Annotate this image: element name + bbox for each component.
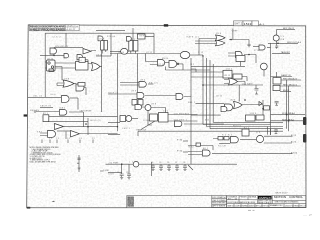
wire cap drop x256 (255, 85, 257, 88)
wire top bus horizontal (45, 32, 154, 34)
capacitor C5 (175, 164, 179, 170)
svg-text:MATERIAL: MATERIAL (249, 196, 257, 199)
svg-text:C9: C9 (126, 172, 128, 174)
svg-text:REC EN: REC EN (30, 110, 40, 112)
svg-text:MOT ON (2): MOT ON (2) (283, 28, 294, 30)
svg-text:SANTA CLARA CA: SANTA CLARA CA (258, 201, 272, 204)
border frame (27, 25, 306, 208)
wire y145.5 (188, 146, 213, 151)
wire to G20 (253, 46, 259, 48)
box pair U26 (132, 100, 137, 106)
wire G19 output (244, 55, 256, 64)
transistor Q2 (260, 63, 267, 70)
wire y115.1 into G30b (191, 114, 221, 116)
svg-text:PB (2): PB (2) (149, 83, 158, 85)
transistor Q3 (256, 135, 263, 142)
nand U19 (236, 52, 243, 58)
wire y122.6 left (108, 122, 120, 124)
svg-text:C8: C8 (183, 162, 185, 164)
svg-text:U4 6: U4 6 (51, 94, 57, 96)
capacitor row (77, 158, 187, 180)
wire G45 vert feed (191, 69, 196, 72)
nand U14 (61, 96, 69, 103)
wire vert above G18 out (232, 29, 234, 40)
wire G16 drops (131, 51, 136, 54)
wire U49 to U50 (165, 62, 169, 64)
wire box G38 drop (276, 72, 278, 78)
wire G17 in (110, 50, 121, 52)
svg-text:B 24: B 24 (291, 142, 297, 144)
wire G35 inputs (40, 133, 48, 136)
wire y85 center right (203, 85, 239, 102)
wire G11 inputs (57, 83, 64, 86)
bottom-center ref text block (127, 195, 212, 207)
svg-text:TACH OUT: TACH OUT (281, 51, 291, 54)
resistor R3 (196, 143, 201, 146)
svg-text:U7 12: U7 12 (146, 52, 153, 54)
wire center long horizontal (110, 53, 180, 55)
gate U5 (77, 55, 83, 60)
svg-text:U9 4: U9 4 (216, 33, 222, 35)
wire G24 to G25 (145, 95, 176, 97)
wire left entry y111.5 (36, 111, 59, 113)
flipflop pair U16 (129, 41, 133, 52)
svg-text:A 4B127 PROD RELEASED: A 4B127 PROD RELEASED (30, 27, 65, 31)
buffer U36 (71, 131, 80, 137)
svg-text:22: 22 (92, 138, 95, 140)
box pair U38 (273, 78, 281, 85)
svg-text:BUS 02: BUS 02 (233, 125, 242, 127)
svg-text:U4 8: U4 8 (64, 78, 70, 80)
wire G41 inputs (219, 141, 230, 144)
wire G32 out (184, 123, 224, 125)
svg-text:E4 2: E4 2 (244, 127, 250, 129)
wire tick extra (41, 140, 43, 144)
box U8 (79, 57, 85, 62)
svg-text:R 22: R 22 (189, 147, 195, 149)
svg-text:C4: C4 (151, 162, 153, 164)
svg-text:P 30: P 30 (177, 140, 183, 142)
wire right y114.6 (271, 114, 306, 116)
transistor Q1 (273, 35, 279, 41)
or-gate U45b (229, 78, 238, 85)
svg-text:TACH IN: TACH IN (40, 105, 52, 108)
svg-text:REF 1: REF 1 (140, 36, 148, 38)
wire stub y141 right (183, 140, 188, 142)
wire G45 inputs (191, 72, 223, 77)
svg-text:U7 11: U7 11 (158, 64, 165, 66)
flipflop U33 (43, 115, 49, 122)
wire y133.5 G36 out (80, 133, 118, 135)
svg-text:10 U9: 10 U9 (143, 120, 150, 122)
wire right y53.7 (272, 53, 290, 55)
svg-text:R 14: R 14 (254, 50, 260, 52)
wire G17 out (128, 50, 129, 52)
wire G7 G8 link (85, 60, 91, 64)
gate U4 (64, 54, 69, 58)
nand U12 (76, 84, 84, 91)
svg-text:E2 1: E2 1 (43, 113, 49, 115)
wire cap Q1 col (275, 46, 278, 49)
capacitor C8 (77, 158, 81, 163)
wire +5 rail col (78, 155, 80, 172)
svg-text:REV A: REV A (263, 204, 270, 207)
wire Q3 outs (264, 136, 293, 143)
svg-text:SIZE D: SIZE D (228, 205, 235, 207)
wire cap C9 x249 (248, 45, 251, 48)
svg-text:U8 5: U8 5 (140, 79, 146, 81)
wire diag 1 (141, 120, 158, 130)
wire into G30 (196, 103, 225, 105)
svg-text:DWG NO: DWG NO (242, 205, 249, 207)
svg-text:SCHEMATIC 2 OF 2: SCHEMATIC 2 OF 2 (270, 204, 283, 207)
nand U35 (48, 131, 56, 138)
wire y154 long (212, 153, 293, 155)
svg-text:2 GND: 2 GND (103, 170, 110, 172)
svg-text:GND: GND (108, 173, 115, 175)
svg-text:4-12-77: 4-12-77 (66, 29, 76, 31)
svg-text:DO NOT SCALE DRAWING SCALE NO: DO NOT SCALE DRAWING SCALE NONE (227, 201, 256, 204)
wire G20 out to right vertical (267, 47, 271, 49)
svg-text:V REF: V REF (232, 31, 239, 33)
wire left vertical from bus (44, 33, 46, 97)
svg-text:U9 8: U9 8 (151, 103, 157, 105)
wire label run to G18 (199, 39, 216, 56)
buffer U2 (83, 49, 91, 54)
wire Q1 collector down (276, 41, 278, 46)
nand U37 (59, 108, 61, 110)
wire transistor Q1 emitter up (276, 29, 278, 35)
wire vbus 2 (207, 58, 284, 127)
svg-text:C5: C5 (159, 162, 161, 164)
svg-text:REV A: REV A (294, 204, 300, 207)
capacitor C6 (120, 174, 124, 180)
wire cap drop x249 (248, 40, 250, 45)
buffer U34 (55, 124, 64, 130)
box U16b (138, 34, 146, 39)
node dots (244, 99, 246, 101)
svg-text:1402571: 1402571 (249, 205, 255, 207)
wire drop x133 (132, 28, 134, 40)
wire G25 out (184, 58, 191, 164)
svg-text:CAP SENSE: CAP SENSE (80, 109, 93, 112)
wire x111 lower (110, 48, 112, 56)
gate U30c (221, 107, 227, 112)
nand U41 (231, 137, 239, 143)
svg-text:8. ALL DIODES ARE TYPE 1N914: 8. ALL DIODES ARE TYPE 1N914 (30, 160, 56, 163)
svg-text:DIR REV 1: DIR REV 1 (174, 119, 188, 121)
wire right y120.8 (271, 120, 306, 122)
wire G13 drop (81, 56, 84, 88)
wire G27 out (139, 107, 166, 114)
box U48 (236, 56, 245, 62)
wire OUT right (268, 42, 298, 44)
capacitor C10 right (275, 102, 279, 106)
nand U24 (137, 93, 144, 99)
svg-text:U8 9: U8 9 (131, 91, 137, 93)
wire G1 area (40, 47, 70, 55)
svg-text:12: 12 (49, 138, 52, 140)
svg-text:C8: C8 (117, 172, 119, 174)
svg-text:U5 2: U5 2 (99, 38, 105, 40)
or-gate U18b (216, 40, 226, 46)
wire bottom pin ticks (50, 140, 93, 144)
wire x138 drop (137, 131, 139, 136)
or-gate U30b (234, 102, 243, 109)
flipflop U45 (223, 70, 232, 78)
or-gate U22 (180, 51, 190, 58)
wire center horizontal right part (190, 54, 203, 56)
svg-text:SH 22: SH 22 (300, 205, 306, 207)
svg-text:SET: SET (37, 132, 43, 134)
wire G35 to G36 (57, 130, 70, 132)
box U7 (76, 62, 89, 71)
svg-text:14: 14 (56, 138, 59, 140)
svg-text:EN: EN (185, 114, 190, 116)
left edge tick (24, 114, 28, 116)
wire G9 out (100, 66, 102, 68)
wire G2 out (70, 47, 96, 50)
svg-text:MOT 1517: MOT 1517 (276, 192, 289, 194)
wire G18 output (229, 39, 249, 41)
svg-text:RUN CMD A-1: RUN CMD A-1 (282, 118, 295, 121)
svg-text:CK 12: CK 12 (216, 96, 223, 98)
svg-text:U6 14: U6 14 (118, 52, 125, 54)
wire diag 2 (188, 165, 193, 170)
nand U25 (176, 94, 183, 100)
title text (212, 196, 305, 208)
flipflop U6 (47, 60, 56, 71)
small dash mark mid-bottom (100, 170, 104, 172)
svg-text:S 12: S 12 (198, 52, 204, 54)
nand U50 (169, 61, 177, 68)
svg-text:R1 2.2K: R1 2.2K (218, 145, 227, 147)
svg-text:Q1 A: Q1 A (279, 38, 285, 41)
pin numbers bottom ticks (49, 138, 95, 140)
wire x151.7 drop (151, 162, 153, 176)
circle gate U27b (145, 105, 151, 111)
wire x165.5 drop (165, 67, 167, 71)
wire G41 out to Q3 (240, 139, 256, 141)
and U27 (135, 104, 142, 109)
wire y62 link (55, 67, 76, 69)
svg-text:18: 18 (79, 138, 82, 140)
svg-text:CLK GATE: CLK GATE (242, 82, 254, 85)
wire bus stubs to Q3 (268, 127, 271, 135)
svg-text:STATUS A: STATUS A (66, 26, 78, 29)
wire y121.7 (48, 121, 88, 123)
capacitor C4 (167, 164, 171, 170)
gate U1 nand (50, 48, 57, 54)
top border tick (164, 24, 168, 26)
wire y56 short (96, 55, 111, 57)
flipflop U28 (150, 114, 158, 121)
svg-text:U3 4: U3 4 (77, 60, 83, 62)
box U10 (49, 69, 54, 72)
svg-text:CMP 1: CMP 1 (122, 128, 131, 130)
svg-text:1 D 2: 1 D 2 (163, 110, 169, 112)
svg-text:B 104: B 104 (291, 152, 298, 154)
top edge reference boxes (234, 21, 259, 26)
wire G12 out (78, 88, 86, 110)
wire G19 inputs (228, 53, 236, 56)
wire G23 inputs (120, 83, 139, 86)
svg-text:EN 2 B: EN 2 B (283, 90, 290, 92)
wire y70.8 center (166, 69, 211, 71)
wire y94 left (108, 93, 137, 95)
bottom-left corner mark (27, 207, 31, 209)
svg-text:CLK 2: CLK 2 (53, 37, 62, 39)
wire G18 inputs (195, 41, 216, 44)
svg-text:C6: C6 (167, 162, 169, 164)
capacitor C3 (159, 164, 163, 170)
title sub-table (212, 196, 227, 208)
svg-text:STB 04: STB 04 (107, 36, 116, 38)
svg-text:STOP CMD A-1: STOP CMD A-1 (282, 112, 296, 115)
wire right y90.4 (280, 85, 301, 87)
svg-text:CONTROL: CONTROL (289, 195, 304, 199)
inductor L1 (133, 161, 139, 167)
svg-text:EN 04: EN 04 (162, 58, 169, 60)
svg-text:REV CMD A-4 2: REV CMD A-4 2 (283, 84, 298, 87)
wire stub x66 (65, 132, 67, 140)
or-gate U9 (92, 63, 101, 71)
svg-text:1513: 1513 (244, 22, 252, 26)
svg-text:C7: C7 (175, 162, 177, 164)
wire left entry y97 (28, 96, 61, 98)
svg-text:FINISH: FINISH (240, 197, 248, 199)
nand U20 (259, 45, 265, 50)
stray marks below frame (248, 209, 255, 211)
connector circle (34, 111, 36, 113)
wire right y94.4 (280, 91, 291, 93)
wire top right out (277, 28, 295, 30)
nand U23 (139, 82, 146, 88)
resistor boxes R1 R2 (218, 137, 223, 140)
svg-text:SERVO BOARD SCHEMATIC: SERVO BOARD SCHEMATIC (275, 201, 299, 204)
nand U32 (175, 121, 182, 127)
box small ref (264, 106, 270, 110)
right edge smudge 2 (303, 134, 306, 143)
right edge smudge 1 (303, 117, 306, 125)
svg-text:16: 16 (67, 138, 70, 140)
wire right long vertical (270, 43, 272, 135)
wire y116.7 (49, 116, 118, 118)
nand U43 (203, 150, 211, 156)
wire y66.3 center (191, 65, 245, 67)
svg-text:B 22: B 22 (291, 135, 297, 137)
application table line (127, 195, 212, 207)
wire G10 out (55, 63, 76, 80)
nand U15 (60, 110, 67, 116)
svg-text:U12 3: U12 3 (230, 100, 236, 102)
svg-text:U2 10: U2 10 (47, 58, 54, 60)
wire Q2 out (263, 70, 265, 77)
wire G14 out (70, 97, 78, 99)
capacitor C11 bottom right (274, 129, 278, 134)
capacitor C5b (183, 164, 187, 170)
wire U48 drop (240, 62, 242, 67)
or-gate U18a (216, 35, 226, 41)
svg-text:RAMP (2): RAMP (2) (281, 74, 291, 77)
nand U49 (158, 59, 165, 65)
svg-text:MOTION: MOTION (274, 195, 286, 199)
wire y85 right segment (239, 84, 263, 86)
bottom-center dash mark (52, 201, 56, 202)
wire x117.5 long vertical (117, 54, 119, 132)
wire G22 feed (179, 53, 181, 55)
wire G11 to G12 (74, 83, 76, 85)
svg-text:DR J SMITH: DR J SMITH (212, 197, 226, 199)
wire U45b out (238, 82, 246, 86)
wire y138.5 into G41 (213, 138, 230, 140)
svg-text:SEL 2: SEL 2 (188, 102, 196, 104)
wire right y84.5 (281, 79, 301, 81)
wire into U49 (146, 54, 158, 65)
svg-text:SHT 2-2: SHT 2-2 (256, 205, 262, 207)
wire U50 out (179, 64, 183, 70)
svg-text:TACH 2X: TACH 2X (108, 91, 119, 94)
wire vert drops right (287, 80, 289, 131)
svg-text:CODE 1: CODE 1 (235, 205, 241, 207)
box U47 (242, 129, 249, 136)
wire x137.5 vertical (137, 54, 139, 93)
svg-text:FWD CMD A-4 2: FWD CMD A-4 2 (283, 78, 298, 81)
gate U17 (121, 48, 128, 54)
wire vbus 4 (213, 64, 283, 122)
wire G37 output (69, 112, 84, 127)
svg-text:+5V PWR: +5V PWR (108, 163, 119, 165)
box U31 (246, 115, 256, 121)
wire G45 out (242, 77, 247, 82)
wire U45b in (224, 80, 229, 84)
wire vbus 1 (203, 56, 271, 125)
capacitor C2 (151, 164, 155, 170)
flipflop pair U3 (101, 41, 104, 51)
wire cap pair feed (108, 172, 122, 174)
svg-text:+5 V: +5 V (279, 36, 285, 38)
svg-text:U13 6: U13 6 (250, 113, 257, 115)
svg-text:Q4 17: Q4 17 (96, 54, 103, 56)
box U13 (78, 83, 85, 87)
nand U30 (225, 104, 233, 111)
svg-text:APP T WHITE: APP T WHITE (212, 205, 226, 208)
svg-text:P 32: P 32 (177, 151, 183, 153)
wire cluster A drop (101, 50, 103, 112)
wire rail drop x121.7 (121, 164, 123, 174)
wire left entry y107 (40, 106, 53, 108)
wire G43 inputs (188, 152, 202, 155)
ground sym (78, 168, 81, 169)
cap value labels (117, 162, 185, 174)
wire x148 drop (148, 110, 152, 125)
gate U3a (98, 36, 103, 41)
wire G30 out (242, 100, 263, 115)
nand U29 (120, 116, 126, 122)
svg-text:CLR 2: CLR 2 (59, 107, 66, 109)
title main block (227, 196, 306, 208)
svg-text:SHT 2: SHT 2 (234, 23, 243, 26)
wire y131.2 long (138, 130, 283, 132)
svg-text:AMPEX: AMPEX (259, 196, 271, 200)
wire G28 outputs (168, 115, 198, 122)
wire G3 drops (102, 50, 106, 54)
svg-text:CHK R JONES: CHK R JONES (212, 200, 226, 202)
svg-text:U11 2: U11 2 (226, 68, 233, 70)
wire G29 out (132, 118, 139, 120)
svg-text:SRV ERR +5V: SRV ERR +5V (55, 46, 69, 48)
svg-text:E6 1: E6 1 (203, 148, 209, 150)
